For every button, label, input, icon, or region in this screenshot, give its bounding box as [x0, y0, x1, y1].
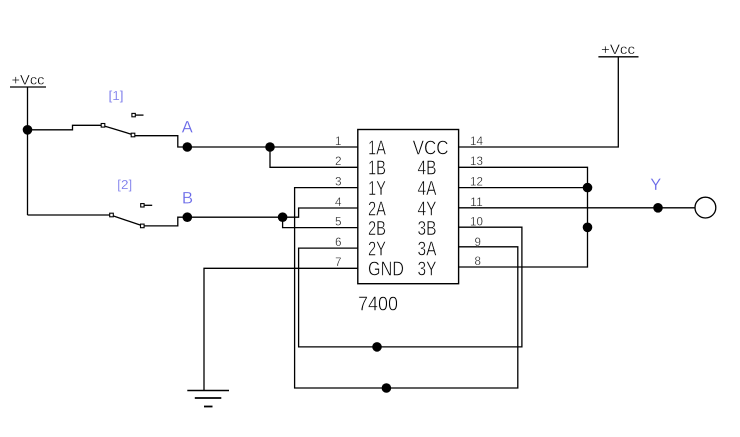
IC U1 7400 body: [358, 130, 459, 284]
svg-text:3Y: 3Y: [418, 259, 437, 281]
output terminal Y: [695, 197, 716, 218]
switch S2 actuator mark: [141, 204, 153, 207]
junction on 2Y rail: [372, 342, 382, 352]
wire node B branch to pin 5: [283, 217, 358, 227]
switch S1 pivot contact: [101, 124, 105, 128]
wire pin 7 (GND) to ground: [204, 268, 358, 390]
svg-text:[1]: [1]: [109, 88, 124, 103]
svg-text:12: 12: [470, 174, 483, 188]
switch S1 arm: [105, 126, 131, 134]
wire pin 14 (VCC) to +Vcc right: [459, 57, 619, 147]
junction Vcc/switch S1: [23, 125, 33, 135]
svg-text:B: B: [182, 188, 193, 207]
switch S1 throw contact: [131, 133, 135, 137]
wire pin 3 (1Y) feedback to pin 9 (3A): [295, 188, 518, 388]
svg-text:2: 2: [335, 154, 342, 168]
svg-text:4: 4: [335, 195, 342, 209]
svg-text:9: 9: [475, 235, 482, 249]
wire pin 6 (2Y) feedback to pin 10 (3B): [299, 227, 522, 347]
junction node B: [183, 212, 193, 222]
wire node A to pin 1: [187, 146, 357, 148]
svg-text:4B: 4B: [418, 158, 437, 180]
svg-text:5: 5: [335, 214, 342, 228]
svg-text:3A: 3A: [418, 238, 438, 260]
junction bus mid: [583, 223, 593, 233]
svg-text:1Y: 1Y: [368, 178, 386, 200]
svg-text:VCC: VCC: [413, 137, 449, 159]
wire Vcc dot to switch S1 pivot: [28, 125, 102, 130]
svg-text:7400: 7400: [358, 294, 398, 316]
junction node A: [183, 142, 193, 152]
svg-text:[2]: [2]: [117, 177, 132, 192]
svg-text:2Y: 2Y: [368, 238, 386, 260]
junction node B branch: [278, 212, 288, 222]
switch S2 pivot contact: [110, 213, 114, 217]
power +Vcc right bar: [598, 56, 638, 58]
junction node Y: [653, 203, 663, 213]
wire pin 13 (4B) bus down to pin 8 (3Y): [459, 167, 588, 267]
switch S1 actuator mark: [132, 113, 144, 116]
wire Vcc bus to switch S2 pivot: [28, 214, 110, 216]
svg-text:7: 7: [335, 255, 342, 269]
svg-text:3B: 3B: [418, 218, 437, 240]
svg-text:6: 6: [335, 235, 342, 249]
switch S2 throw contact: [141, 224, 145, 228]
switch S2 arm: [114, 216, 141, 225]
wire node B to pin 4: [187, 208, 357, 217]
wire switch S2 to node B: [144, 217, 188, 226]
svg-text:11: 11: [470, 195, 483, 209]
svg-text:1A: 1A: [368, 137, 386, 159]
svg-text:4A: 4A: [418, 178, 438, 200]
svg-text:8: 8: [475, 254, 482, 268]
svg-text:10: 10: [470, 214, 483, 228]
junction on 1Y rail: [382, 383, 392, 393]
wire switch S1 to node A: [135, 136, 188, 147]
svg-text:14: 14: [470, 134, 483, 148]
svg-text:A: A: [182, 117, 194, 136]
junction pin 12 on bus: [583, 183, 593, 193]
svg-text:1: 1: [335, 134, 342, 148]
wire Vcc left vertical bus: [27, 87, 29, 215]
svg-text:+Vcc: +Vcc: [12, 72, 45, 88]
svg-text:GND: GND: [368, 259, 404, 281]
wire pin 11 (4Y) to output Y: [459, 207, 695, 209]
wire pin 12 (4A) to bus: [459, 187, 588, 189]
svg-text:+Vcc: +Vcc: [601, 41, 635, 57]
svg-text:1B: 1B: [368, 158, 386, 180]
junction node A branch: [265, 142, 275, 152]
svg-text:Y: Y: [650, 175, 661, 194]
svg-text:13: 13: [470, 154, 483, 168]
svg-text:3: 3: [335, 174, 342, 188]
power +Vcc left bar: [10, 86, 46, 88]
wire node A branch to pin 2: [270, 147, 358, 167]
ground symbol: [187, 391, 229, 407]
svg-text:2B: 2B: [368, 218, 386, 240]
